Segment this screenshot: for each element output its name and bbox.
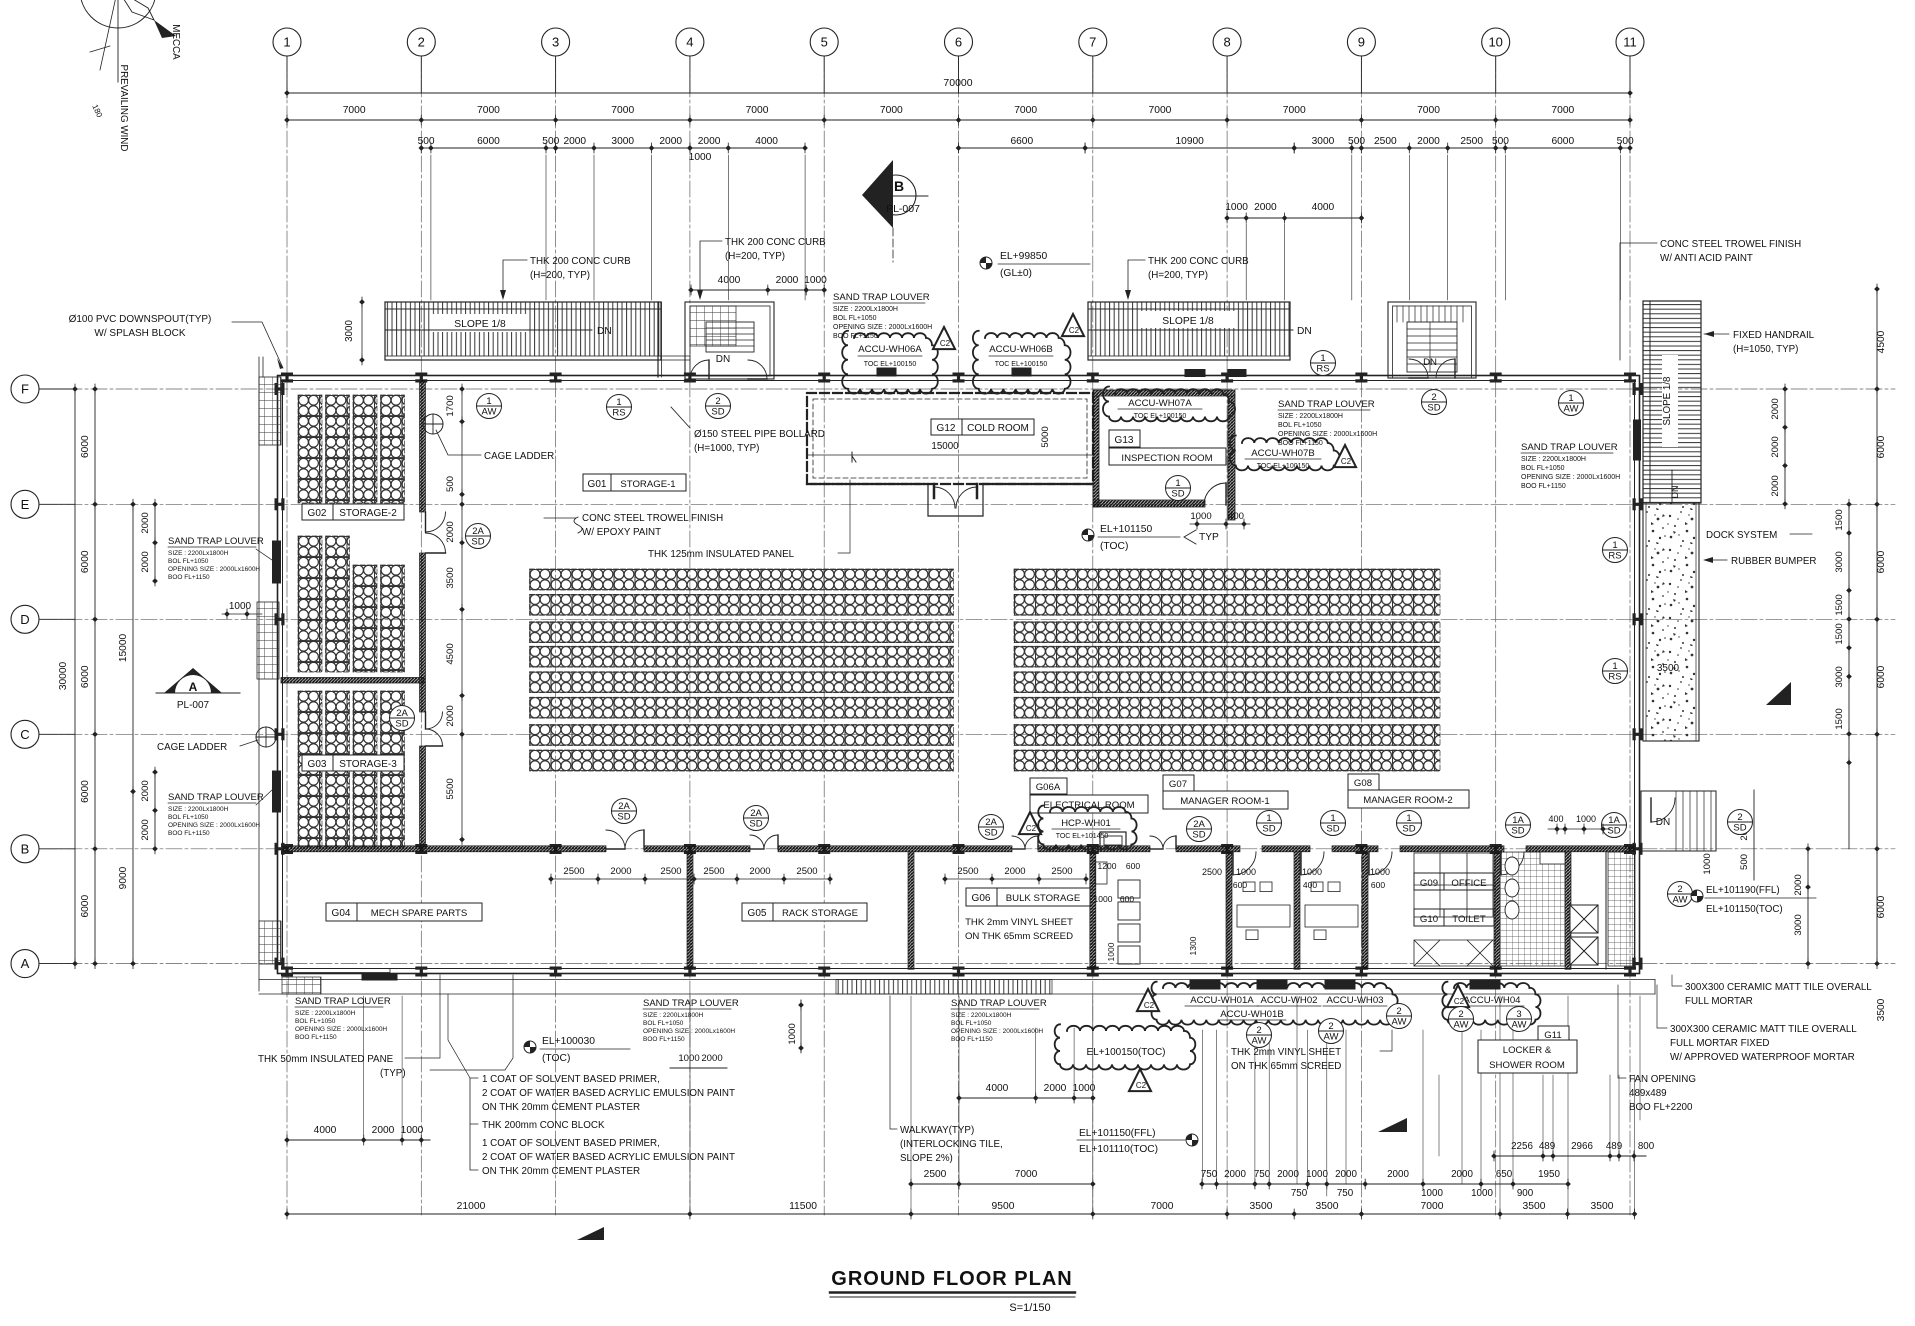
svg-text:70000: 70000 — [943, 77, 972, 89]
svg-text:2000: 2000 — [1770, 475, 1781, 496]
bottom louver black left2 — [292, 969, 390, 973]
svg-text:OPENING SIZE : 2000Lx1600H: OPENING SIZE : 2000Lx1600H — [1278, 431, 1377, 438]
svg-text:SAND TRAP LOUVER: SAND TRAP LOUVER — [295, 996, 391, 1007]
svg-text:6000: 6000 — [1551, 136, 1574, 147]
svg-text:C2: C2 — [1454, 997, 1465, 1006]
G11 label — [1538, 1026, 1569, 1042]
svg-text:9500: 9500 — [992, 1201, 1015, 1212]
svg-text:6000: 6000 — [80, 780, 91, 803]
svg-text:G09: G09 — [1420, 878, 1438, 889]
svg-text:7000: 7000 — [343, 105, 366, 116]
manager room 2 furniture — [1305, 905, 1358, 927]
wall columns B row — [281, 844, 293, 854]
svg-text:PREVAILING WIND: PREVAILING WIND — [118, 65, 129, 152]
svg-text:2000: 2000 — [659, 136, 682, 147]
svg-text:1: 1 — [1320, 353, 1325, 364]
svg-text:BOO FL+2200: BOO FL+2200 — [1629, 1102, 1693, 1113]
svg-text:C2: C2 — [1136, 1081, 1147, 1090]
svg-text:15000: 15000 — [931, 441, 959, 452]
svg-text:1500: 1500 — [1834, 509, 1845, 530]
svg-text:15000: 15000 — [118, 634, 129, 663]
cold room G12 dashed boundary — [807, 393, 1093, 484]
svg-text:BOO FL+1150: BOO FL+1150 — [833, 333, 878, 340]
svg-text:THK 125mm INSULATED PANEL: THK 125mm INSULATED PANEL — [648, 549, 795, 560]
vertical partitions bottom strip — [687, 852, 693, 970]
svg-text:PL-007: PL-007 — [177, 700, 210, 711]
C2 bottom left of walkway — [1447, 985, 1469, 1007]
svg-text:9: 9 — [1358, 35, 1365, 50]
svg-text:ACCU-WH07B: ACCU-WH07B — [1251, 448, 1314, 459]
svg-text:TOC EL+100150: TOC EL+100150 — [995, 361, 1048, 368]
svg-text:2A: 2A — [750, 808, 762, 819]
svg-text:AW: AW — [1324, 1032, 1339, 1043]
bottom apron lines — [259, 979, 1655, 981]
svg-text:4500: 4500 — [445, 643, 456, 664]
svg-text:1700: 1700 — [445, 395, 456, 416]
sand trap louver west2 — [256, 790, 272, 805]
insulated panel wall x=420 — [420, 380, 426, 512]
svg-text:STORAGE-3: STORAGE-3 — [339, 759, 397, 770]
dock — [1643, 503, 1699, 741]
svg-text:2: 2 — [1328, 1021, 1333, 1032]
svg-text:TOC EL+100150: TOC EL+100150 — [864, 361, 917, 368]
svg-text:G01: G01 — [588, 479, 607, 490]
svg-text:600: 600 — [1233, 880, 1247, 890]
svg-text:750: 750 — [1291, 1188, 1308, 1199]
EL+101190(FFL) right — [1691, 890, 1703, 902]
svg-text:BOL FL+1050: BOL FL+1050 — [168, 558, 209, 565]
svg-text:DOCK SYSTEM: DOCK SYSTEM — [1706, 530, 1777, 541]
svg-text:C2: C2 — [1144, 1001, 1155, 1010]
svg-text:SAND TRAP LOUVER: SAND TRAP LOUVER — [1278, 399, 1375, 410]
B row wall with openings — [283, 846, 607, 852]
svg-text:OFFICE: OFFICE — [1451, 878, 1486, 889]
svg-text:3: 3 — [1516, 1009, 1521, 1020]
svg-text:STORAGE-2: STORAGE-2 — [339, 508, 397, 519]
svg-text:AW: AW — [482, 407, 497, 418]
svg-text:2: 2 — [1458, 1009, 1463, 1020]
svg-text:7000: 7000 — [1148, 105, 1171, 116]
svg-text:750: 750 — [1201, 1169, 1218, 1180]
locker tile area — [1608, 852, 1635, 966]
svg-text:ACCU-WH04: ACCU-WH04 — [1463, 995, 1521, 1006]
svg-text:BOO FL+1150: BOO FL+1150 — [643, 1036, 685, 1043]
svg-text:2000: 2000 — [1387, 1169, 1409, 1180]
top wall louvers near col8 — [1185, 370, 1205, 377]
svg-text:DN: DN — [716, 354, 730, 365]
inspection room walls — [1093, 390, 1235, 396]
svg-text:3500: 3500 — [1591, 1201, 1614, 1212]
EL+100030 — [524, 1041, 536, 1053]
svg-text:G11: G11 — [1544, 1030, 1561, 1041]
svg-text:RS: RS — [1316, 364, 1329, 375]
svg-text:3000: 3000 — [1793, 914, 1804, 935]
svg-text:500: 500 — [1739, 854, 1750, 870]
svg-text:BOO FL+1150: BOO FL+1150 — [168, 830, 210, 837]
svg-text:8: 8 — [1223, 35, 1230, 50]
svg-text:SAND TRAP LOUVER: SAND TRAP LOUVER — [168, 536, 264, 547]
left mid ladder grid — [257, 602, 279, 679]
svg-text:1000: 1000 — [1106, 942, 1116, 961]
svg-text:7000: 7000 — [1014, 105, 1037, 116]
svg-text:MECCA: MECCA — [170, 24, 181, 60]
svg-text:1: 1 — [283, 35, 290, 50]
svg-text:G02: G02 — [308, 508, 327, 519]
svg-text:21000: 21000 — [457, 1201, 486, 1212]
door G03 butterfly — [426, 712, 443, 729]
svg-text:(GL±0): (GL±0) — [1000, 268, 1032, 279]
locker label — [1478, 1040, 1577, 1073]
svg-text:SD: SD — [749, 819, 762, 830]
svg-text:2966: 2966 — [1571, 1141, 1593, 1152]
top dimension tier 70000 — [287, 92, 1630, 94]
svg-text:THK 200 CONC CURB: THK 200 CONC CURB — [530, 256, 631, 267]
svg-text:G13: G13 — [1115, 435, 1134, 446]
svg-text:SAND TRAP LOUVER: SAND TRAP LOUVER — [951, 998, 1047, 1009]
svg-text:SAND TRAP LOUVER: SAND TRAP LOUVER — [1521, 442, 1618, 453]
svg-text:C: C — [20, 727, 29, 742]
svg-text:(TOC): (TOC) — [1100, 541, 1128, 552]
G02 label — [302, 504, 404, 520]
svg-text:1000: 1000 — [678, 1053, 699, 1064]
svg-text:2: 2 — [418, 35, 425, 50]
svg-text:C2: C2 — [1026, 824, 1037, 833]
svg-text:1: 1 — [616, 397, 621, 408]
svg-text:2A: 2A — [985, 817, 997, 828]
svg-text:500: 500 — [445, 476, 456, 492]
top stair between ramp1 and col4 — [685, 302, 774, 379]
G05 label — [742, 903, 867, 921]
G06 label — [966, 888, 1090, 906]
svg-text:FULL MORTAR: FULL MORTAR — [1685, 996, 1753, 1007]
svg-text:(TYP): (TYP) — [380, 1068, 406, 1079]
svg-text:3000: 3000 — [1312, 136, 1335, 147]
svg-text:OPENING SIZE : 2000Lx1600H: OPENING SIZE : 2000Lx1600H — [295, 1026, 387, 1033]
svg-text:W/ APPROVED WATERPROOF MORTAR: W/ APPROVED WATERPROOF MORTAR — [1670, 1052, 1855, 1063]
G01 label — [583, 474, 686, 491]
svg-text:2500: 2500 — [957, 866, 978, 877]
svg-text:2000: 2000 — [445, 521, 456, 542]
svg-text:SLOPE 2%): SLOPE 2%) — [900, 1153, 953, 1164]
bottom louver rects — [1190, 980, 1220, 989]
svg-text:2000: 2000 — [563, 136, 586, 147]
svg-text:SHOWER ROOM: SHOWER ROOM — [1489, 1060, 1565, 1071]
svg-text:AW: AW — [1392, 1017, 1407, 1028]
west wall louver 2 — [273, 771, 281, 812]
bottom dims — [287, 1213, 1635, 1215]
top stair col8-9 — [1388, 302, 1476, 378]
door/window tag circles — [477, 394, 502, 419]
svg-text:600: 600 — [1120, 894, 1134, 904]
svg-text:1A: 1A — [1512, 815, 1524, 826]
svg-text:3500: 3500 — [445, 567, 456, 588]
svg-text:SIZE : 2200Lx1800H: SIZE : 2200Lx1800H — [168, 806, 229, 813]
svg-text:LOCKER &: LOCKER & — [1503, 1045, 1552, 1056]
doors on B wall (butterfly pairs) — [606, 830, 625, 849]
svg-text:EL+101150(TOC): EL+101150(TOC) — [1706, 904, 1783, 915]
svg-text:ON THK 65mm SCREED: ON THK 65mm SCREED — [965, 931, 1073, 942]
svg-text:2000: 2000 — [698, 136, 721, 147]
svg-text:SIZE : 2200Lx1800H: SIZE : 2200Lx1800H — [1521, 456, 1586, 463]
svg-text:BOO FL+1150: BOO FL+1150 — [1521, 483, 1566, 490]
svg-text:RACK STORAGE: RACK STORAGE — [782, 908, 858, 919]
svg-text:ACCU-WH01A: ACCU-WH01A — [1190, 995, 1254, 1006]
svg-text:6: 6 — [955, 35, 962, 50]
svg-text:2 COAT OF WATER BASED ACRYLIC: 2 COAT OF WATER BASED ACRYLIC EMULSION P… — [482, 1088, 735, 1099]
svg-text:1500: 1500 — [1834, 594, 1845, 615]
svg-text:1: 1 — [1266, 813, 1271, 824]
svg-text:SD: SD — [1326, 824, 1339, 835]
svg-text:2500: 2500 — [563, 866, 584, 877]
svg-text:EL+101150: EL+101150 — [1100, 524, 1152, 535]
svg-text:EL+101190(FFL): EL+101190(FFL) — [1706, 885, 1780, 896]
svg-text:G03: G03 — [308, 759, 327, 770]
svg-text:SLOPE 1/8: SLOPE 1/8 — [454, 319, 506, 330]
top-left cage ladder grid — [259, 377, 281, 445]
svg-text:1: 1 — [1568, 393, 1573, 404]
G08 label — [1348, 774, 1379, 790]
svg-text:1000: 1000 — [1702, 853, 1713, 874]
svg-text:750: 750 — [1337, 1188, 1354, 1199]
right ramp SLOPE 1/8 vertical — [1643, 301, 1701, 503]
svg-text:3500: 3500 — [1316, 1201, 1339, 1212]
bottom right exterior stair — [1641, 791, 1716, 851]
svg-text:ACCU-WH06B: ACCU-WH06B — [989, 344, 1052, 355]
svg-text:2000: 2000 — [140, 512, 151, 533]
svg-text:7: 7 — [1089, 35, 1096, 50]
svg-text:W/ SPLASH BLOCK: W/ SPLASH BLOCK — [94, 328, 185, 339]
svg-text:6600: 6600 — [1010, 136, 1033, 147]
svg-text:500: 500 — [418, 136, 435, 147]
svg-text:G06A: G06A — [1036, 782, 1061, 793]
interior dim chain col3-4 — [461, 389, 463, 840]
svg-text:750: 750 — [1254, 1169, 1271, 1180]
G12 label — [931, 419, 1034, 435]
svg-text:(H=200, TYP): (H=200, TYP) — [1148, 270, 1208, 281]
svg-text:7000: 7000 — [1551, 105, 1574, 116]
svg-text:7000: 7000 — [1015, 1169, 1038, 1180]
svg-text:1950: 1950 — [1538, 1169, 1560, 1180]
svg-text:400: 400 — [1548, 814, 1563, 824]
svg-text:G10: G10 — [1420, 914, 1438, 925]
svg-text:4500: 4500 — [1876, 330, 1887, 353]
ramp 2 SLOPE 1/8 — [1088, 302, 1290, 360]
svg-text:2: 2 — [1396, 1006, 1401, 1017]
svg-text:4000: 4000 — [1312, 202, 1335, 213]
svg-text:SD: SD — [1733, 823, 1746, 834]
svg-text:W/ ANTI ACID PAINT: W/ ANTI ACID PAINT — [1660, 253, 1753, 264]
svg-text:7000: 7000 — [477, 105, 500, 116]
cold room door vestibule — [928, 484, 983, 516]
svg-text:SD: SD — [1607, 826, 1620, 837]
svg-text:2000: 2000 — [776, 275, 799, 286]
svg-text:3000: 3000 — [344, 320, 355, 342]
G02 storage racks mid block — [298, 536, 322, 672]
svg-text:600: 600 — [1371, 880, 1385, 890]
svg-text:SIZE : 2200Lx1800H: SIZE : 2200Lx1800H — [295, 1010, 356, 1017]
svg-text:SAND TRAP LOUVER: SAND TRAP LOUVER — [643, 998, 739, 1009]
svg-text:MANAGER ROOM-1: MANAGER ROOM-1 — [1180, 796, 1270, 807]
manager room 1 furniture — [1237, 905, 1290, 927]
svg-text:6000: 6000 — [80, 895, 91, 918]
building outer wall — [278, 376, 1640, 974]
svg-text:4000: 4000 — [314, 1125, 337, 1136]
black ramp arrow symbols — [1378, 1118, 1407, 1132]
svg-text:B: B — [894, 178, 904, 194]
svg-text:1: 1 — [486, 396, 491, 407]
svg-text:THK 200 CONC CURB: THK 200 CONC CURB — [725, 237, 826, 248]
svg-text:2000: 2000 — [1277, 1169, 1299, 1180]
svg-text:2: 2 — [1256, 1025, 1261, 1036]
svg-text:F: F — [21, 382, 29, 397]
svg-text:SD: SD — [617, 812, 630, 823]
svg-text:SD: SD — [1171, 489, 1184, 500]
svg-text:SD: SD — [984, 828, 997, 839]
ACCU-WH07B cloud — [1230, 436, 1340, 471]
svg-text:DN: DN — [597, 326, 612, 337]
toilet fixtures — [1505, 857, 1519, 875]
svg-text:(H=200, TYP): (H=200, TYP) — [530, 270, 590, 281]
svg-text:ON THK 65mm SCREED: ON THK 65mm SCREED — [1231, 1061, 1341, 1072]
inspection door — [1204, 483, 1226, 505]
svg-text:30000: 30000 — [58, 662, 69, 691]
dim extension lines — [430, 155, 432, 300]
svg-text:Ø150 STEEL PIPE BOLLARD: Ø150 STEEL PIPE BOLLARD — [694, 429, 825, 440]
svg-text:2256: 2256 — [1511, 1141, 1533, 1152]
EL+99850 — [980, 257, 992, 269]
svg-text:MECH SPARE PARTS: MECH SPARE PARTS — [371, 908, 468, 919]
svg-text:1000: 1000 — [1236, 867, 1256, 877]
svg-text:6000: 6000 — [1876, 550, 1887, 573]
svg-text:400: 400 — [1228, 511, 1244, 522]
svg-text:11: 11 — [1623, 35, 1637, 50]
svg-text:C2: C2 — [1341, 457, 1352, 466]
svg-text:SIZE : 2200Lx1800H: SIZE : 2200Lx1800H — [168, 550, 229, 557]
svg-text:BOL FL+1050: BOL FL+1050 — [295, 1018, 336, 1025]
svg-text:COLD ROOM: COLD ROOM — [967, 423, 1029, 434]
svg-text:489: 489 — [1606, 1141, 1622, 1152]
EL+101150 center — [1082, 529, 1094, 541]
svg-text:3000: 3000 — [611, 136, 634, 147]
svg-text:1000: 1000 — [689, 152, 712, 163]
svg-text:SD: SD — [711, 407, 724, 418]
svg-text:SAND TRAP LOUVER: SAND TRAP LOUVER — [833, 292, 930, 303]
top dimension tier 7000s — [287, 119, 1630, 121]
wall columns bottom — [281, 967, 293, 977]
svg-text:AW: AW — [1673, 895, 1688, 906]
svg-text:SIZE : 2200Lx1800H: SIZE : 2200Lx1800H — [833, 306, 898, 313]
svg-text:FAN OPENING: FAN OPENING — [1629, 1074, 1696, 1085]
svg-text:S=1/150: S=1/150 — [1009, 1302, 1050, 1314]
svg-text:7000: 7000 — [1151, 1201, 1174, 1212]
svg-text:7000: 7000 — [611, 105, 634, 116]
svg-text:4000: 4000 — [718, 275, 741, 286]
svg-text:2000: 2000 — [1770, 398, 1781, 419]
left dims — [74, 389, 76, 964]
svg-text:1000: 1000 — [1421, 1188, 1443, 1199]
svg-text:BULK STORAGE: BULK STORAGE — [1006, 893, 1080, 904]
svg-text:2: 2 — [715, 396, 720, 407]
G10 label — [1414, 909, 1494, 926]
svg-text:2000: 2000 — [140, 780, 151, 801]
interior dims above B wall — [551, 878, 694, 880]
G06A label — [1030, 778, 1067, 794]
svg-text:DN: DN — [1656, 817, 1670, 828]
svg-text:2: 2 — [1431, 392, 1436, 403]
svg-text:2A: 2A — [1193, 819, 1205, 830]
svg-text:EL+100150(TOC): EL+100150(TOC) — [1086, 1047, 1165, 1058]
svg-text:900: 900 — [1517, 1188, 1534, 1199]
svg-text:2000: 2000 — [610, 866, 631, 877]
EL+100150 cloud — [1055, 1024, 1196, 1069]
svg-text:650: 650 — [1496, 1169, 1513, 1180]
svg-text:3: 3 — [552, 35, 559, 50]
svg-text:CONC STEEL TROWEL FINISH: CONC STEEL TROWEL FINISH — [582, 513, 723, 524]
svg-text:2500: 2500 — [924, 1169, 947, 1180]
svg-text:OPENING SIZE : 2000Lx1600H: OPENING SIZE : 2000Lx1600H — [833, 324, 932, 331]
cold room bottom dashed wall — [807, 483, 928, 485]
west wall louver 1 — [273, 541, 281, 583]
svg-text:MANAGER ROOM-2: MANAGER ROOM-2 — [1363, 795, 1453, 806]
svg-text:6000: 6000 — [80, 665, 91, 688]
svg-text:TOILET: TOILET — [1452, 914, 1486, 925]
svg-text:4000: 4000 — [755, 136, 778, 147]
svg-text:7000: 7000 — [1417, 105, 1440, 116]
svg-text:RS: RS — [1608, 672, 1621, 683]
ACCU-WH06B cloud — [973, 331, 1071, 394]
svg-text:2: 2 — [1737, 812, 1742, 823]
svg-text:10: 10 — [1488, 35, 1502, 50]
svg-text:1000: 1000 — [1190, 511, 1211, 522]
svg-text:SD: SD — [471, 537, 484, 548]
svg-text:4000: 4000 — [986, 1083, 1009, 1094]
svg-text:1000: 1000 — [1306, 1169, 1328, 1180]
thin wall 1606 — [1605, 852, 1607, 969]
svg-text:1000: 1000 — [229, 601, 252, 612]
svg-text:1: 1 — [1612, 661, 1617, 672]
svg-text:HCP-WH01: HCP-WH01 — [1061, 818, 1111, 829]
svg-text:SIZE : 2200Lx1800H: SIZE : 2200Lx1800H — [643, 1012, 704, 1019]
svg-text:2000: 2000 — [1254, 202, 1277, 213]
svg-text:1000: 1000 — [1073, 1083, 1096, 1094]
svg-text:FULL MORTAR FIXED: FULL MORTAR FIXED — [1670, 1038, 1769, 1049]
svg-text:1000: 1000 — [401, 1125, 424, 1136]
left apron line — [258, 357, 260, 991]
svg-text:2000: 2000 — [445, 705, 456, 726]
svg-text:2500: 2500 — [1202, 867, 1222, 877]
svg-text:DN: DN — [1670, 486, 1680, 499]
svg-text:SD: SD — [1511, 826, 1524, 837]
HCP-WH01 cloud — [1038, 806, 1136, 850]
svg-text:B: B — [21, 841, 30, 856]
svg-text:OPENING SIZE : 2000Lx1600H: OPENING SIZE : 2000Lx1600H — [643, 1028, 735, 1035]
svg-text:AW: AW — [1252, 1036, 1267, 1047]
svg-text:5000: 5000 — [1040, 426, 1051, 447]
svg-text:7000: 7000 — [880, 105, 903, 116]
svg-text:1A: 1A — [1608, 815, 1620, 826]
svg-text:EL+100030: EL+100030 — [542, 1036, 595, 1047]
svg-text:BOO FL+1150: BOO FL+1150 — [168, 574, 210, 581]
svg-text:E: E — [21, 497, 30, 512]
svg-text:BOL FL+1050: BOL FL+1050 — [1278, 422, 1322, 429]
svg-text:300X300 CERAMIC MATT TILE OVER: 300X300 CERAMIC MATT TILE OVERALL — [1670, 1024, 1857, 1035]
G13 label — [1109, 430, 1140, 447]
svg-text:SD: SD — [1402, 824, 1415, 835]
left lower ladder grid — [259, 921, 281, 964]
ramp1 3000 dim — [361, 302, 363, 360]
door G02 butterfly — [426, 512, 446, 532]
cold room 15000 dim line — [807, 454, 1093, 456]
